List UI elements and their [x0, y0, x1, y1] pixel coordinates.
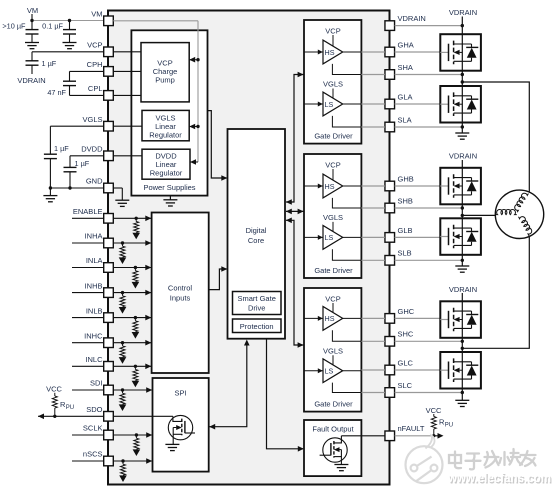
- pin SHC: [385, 330, 414, 346]
- svg-text:SPI: SPI: [175, 389, 187, 398]
- wire INLB stub: [72, 317, 104, 319]
- wire VM rail: [30, 19, 103, 22]
- svg-text:GHB: GHB: [398, 174, 414, 183]
- pin GND: [86, 177, 113, 193]
- wire SHA driver side: [361, 74, 385, 76]
- wire phase A: [462, 82, 529, 192]
- ground: [43, 196, 57, 202]
- wire GLC to bridge: [395, 369, 441, 371]
- svg-text:VGLS: VGLS: [323, 346, 343, 355]
- svg-text:VGLS: VGLS: [82, 115, 102, 124]
- pin GHB: [385, 174, 414, 190]
- wire nSCS stub: [72, 460, 104, 462]
- pin CPL: [88, 84, 113, 100]
- ground: [455, 133, 469, 139]
- pin VGLS: [82, 115, 113, 131]
- pin SHB: [385, 196, 413, 212]
- svg-text:0.1 µF: 0.1 µF: [42, 22, 63, 31]
- svg-text:Pump: Pump: [155, 75, 175, 84]
- wire INLA internal: [113, 265, 151, 271]
- wire INLC stub: [72, 365, 104, 367]
- svg-text:VCC: VCC: [46, 385, 62, 394]
- svg-text:1 µF: 1 µF: [75, 159, 90, 168]
- pin SLA: [385, 115, 412, 131]
- wire GHA to bridge: [395, 51, 441, 53]
- svg-text:VM: VM: [91, 10, 102, 19]
- block Control Inputs: [152, 213, 209, 374]
- pin SHA: [385, 63, 413, 79]
- pin GHC: [385, 307, 415, 323]
- resistor pulldown INLC: [132, 366, 140, 387]
- svg-text:VGLS: VGLS: [323, 213, 343, 222]
- svg-text:Digital: Digital: [246, 226, 267, 235]
- pin SDI: [90, 379, 113, 395]
- transistor low-side A: [440, 86, 481, 123]
- wire INLC internal: [113, 364, 151, 370]
- pin GLA: [385, 92, 413, 108]
- svg-text:VCP: VCP: [325, 161, 340, 170]
- svg-text:VCC: VCC: [426, 406, 442, 415]
- wire SLA to bridge: [395, 126, 462, 128]
- watermark text URL: [447, 471, 551, 485]
- wire nFAULT arrow: [432, 433, 443, 439]
- wire GND: [49, 186, 104, 195]
- svg-text:47 nF: 47 nF: [47, 88, 66, 97]
- pin INLA: [86, 256, 113, 272]
- block Protection: [233, 319, 282, 333]
- block Smart Gate Drive: [233, 292, 282, 315]
- svg-text:Core: Core: [248, 236, 264, 245]
- svg-text:>10 µF: >10 µF: [2, 22, 26, 31]
- node VCC label: [46, 385, 62, 394]
- wire GLB to bridge: [395, 236, 441, 238]
- svg-text:INLC: INLC: [85, 355, 103, 364]
- pin SDO: [86, 405, 113, 421]
- svg-text:Protection: Protection: [240, 322, 274, 331]
- pin INLC: [85, 355, 113, 371]
- pin nSCS: [83, 450, 113, 466]
- wire GLB driver side: [361, 236, 385, 238]
- wire bus to gate driver A: [286, 72, 304, 205]
- transistor low-side B: [440, 218, 481, 255]
- block Fault Output: [304, 420, 361, 476]
- svg-text:VGLS: VGLS: [323, 80, 343, 89]
- svg-text:SHB: SHB: [398, 196, 413, 205]
- wire SCLK stub: [72, 434, 104, 436]
- wire INHA stub: [72, 242, 104, 244]
- pin VM: [91, 10, 113, 26]
- wire SHB to bridge: [395, 207, 462, 209]
- watermark logo: [406, 436, 443, 484]
- svg-text:PU: PU: [445, 423, 453, 429]
- wire SHC node: [461, 338, 464, 352]
- wire digital core to fault output: [267, 339, 304, 452]
- svg-text:SLC: SLC: [398, 381, 413, 390]
- svg-text:HS: HS: [325, 182, 335, 191]
- wire INLA stub: [72, 267, 104, 269]
- svg-text:LS: LS: [325, 100, 334, 109]
- resistor pulldown INLB: [132, 318, 140, 339]
- block VCP Charge Pump: [141, 43, 189, 102]
- transistor fault output driver: [320, 436, 348, 465]
- motor M1: [495, 190, 543, 238]
- capacitor 1 uF VCP: [26, 59, 57, 74]
- resistor pulldown SCLK: [133, 435, 141, 456]
- resistor pulldown INHC: [119, 343, 127, 364]
- wire SHB node: [461, 204, 464, 218]
- capacitor 0.1 uF: [42, 21, 76, 43]
- svg-text:GLC: GLC: [398, 358, 414, 367]
- wire VM feedback: [113, 21, 199, 165]
- svg-text:Inputs: Inputs: [170, 294, 191, 303]
- wire SCLK internal: [113, 432, 152, 438]
- svg-text:INHB: INHB: [85, 281, 103, 290]
- wire INHC stub: [72, 342, 104, 344]
- wire DVDD to regulator: [113, 155, 142, 157]
- ground: [25, 43, 39, 49]
- svg-text:DVDD: DVDD: [81, 145, 103, 154]
- pin GLC: [385, 358, 414, 374]
- resistor pulldown SDI: [119, 390, 127, 411]
- pin GLB: [385, 226, 413, 242]
- svg-text:LS: LS: [325, 233, 334, 242]
- wire bus to gate driver B: [286, 209, 304, 215]
- wire SDO into SPI: [113, 415, 173, 417]
- wire SHC driver side: [361, 340, 385, 342]
- transistor SPI SDO driver: [168, 415, 195, 444]
- wire VCP to charge pump: [113, 51, 141, 53]
- wire GND internal ground: [113, 188, 129, 206]
- wire CPH: [70, 71, 104, 81]
- resistor RPU nFAULT: [431, 414, 453, 436]
- wire CPH to charge pump: [113, 70, 141, 72]
- resistor pulldown ENABLE: [132, 218, 140, 239]
- pin ENABLE: [73, 207, 113, 223]
- wire INHB internal: [113, 290, 151, 296]
- transistor high-side A: [440, 34, 481, 70]
- wire INHA internal: [113, 240, 151, 246]
- svg-text:ENABLE: ENABLE: [73, 207, 103, 216]
- wire CPL: [70, 86, 104, 96]
- svg-text:VCP: VCP: [87, 41, 102, 50]
- svg-text:HS: HS: [325, 314, 335, 323]
- pin nFAULT: [385, 424, 425, 440]
- svg-text:INLA: INLA: [86, 256, 103, 265]
- main IC block U1: [108, 11, 390, 485]
- wire VDRAIN rail C: [461, 293, 463, 301]
- wire VDRAIN rail B: [461, 160, 463, 168]
- wire GHA driver side: [361, 51, 385, 53]
- node VCC label nFAULT: [426, 406, 442, 415]
- pin INLB: [86, 306, 113, 322]
- svg-text:CPH: CPH: [87, 60, 103, 69]
- svg-text:GLB: GLB: [398, 226, 413, 235]
- wire SLB driver side: [361, 259, 385, 261]
- svg-text:VDRAIN: VDRAIN: [449, 285, 477, 294]
- capacitor 1 uF DVDD: [64, 159, 90, 188]
- ground: [455, 266, 469, 272]
- svg-text:Fault Output: Fault Output: [312, 424, 354, 433]
- wire power supplies to digital core: [208, 111, 228, 181]
- resistor pulldown nSCS: [119, 461, 127, 482]
- transistor high-side C: [440, 301, 481, 338]
- svg-text:SDO: SDO: [86, 405, 102, 414]
- svg-text:1 µF: 1 µF: [54, 144, 69, 153]
- wire SHC to bridge: [395, 340, 462, 342]
- wire VDRAIN rail A: [461, 17, 464, 35]
- block Digital Core: [228, 129, 286, 339]
- svg-text:CPL: CPL: [88, 84, 103, 93]
- svg-text:Regulator: Regulator: [149, 130, 182, 139]
- svg-text:Power Supplies: Power Supplies: [143, 183, 195, 192]
- svg-text:SLA: SLA: [398, 115, 412, 124]
- capacitor 47 nF: [47, 81, 76, 97]
- block SPI: [153, 378, 209, 472]
- svg-text:nFAULT: nFAULT: [398, 424, 425, 433]
- wire SLA driver side: [361, 126, 385, 128]
- svg-text:SCLK: SCLK: [83, 424, 103, 433]
- wire fault to nFAULT pin: [341, 435, 385, 437]
- pin SLB: [385, 249, 412, 265]
- pin VCP: [87, 41, 113, 57]
- svg-text:GHC: GHC: [398, 307, 415, 316]
- svg-text:SHA: SHA: [398, 63, 413, 72]
- svg-text:HS: HS: [325, 48, 335, 57]
- capacitor 1 uF VGLS: [44, 144, 69, 188]
- wire SLA node: [461, 123, 464, 134]
- wire VGLS to regulator: [113, 125, 142, 127]
- pin SCLK: [83, 424, 113, 440]
- capacitor >10 uF: [2, 21, 38, 43]
- svg-text:INLB: INLB: [86, 306, 103, 315]
- motor winding A: [513, 191, 529, 212]
- wire bus to gate driver C: [286, 218, 304, 348]
- wire SHA to bridge: [395, 74, 462, 76]
- block VGLS Linear Regulator: [142, 110, 189, 140]
- pin INHA: [85, 232, 114, 248]
- wire VGLS: [50, 126, 103, 154]
- svg-text:PU: PU: [66, 405, 74, 411]
- block Power Supplies: [131, 30, 207, 195]
- wire GHC to bridge: [395, 317, 441, 319]
- svg-text:1 µF: 1 µF: [42, 59, 57, 68]
- wire VCP: [32, 52, 104, 61]
- wire SLC node: [461, 389, 464, 401]
- node VDRAIN label: [17, 76, 45, 85]
- motor winding B: [495, 209, 517, 214]
- wire GHB to bridge: [395, 185, 441, 187]
- pin CPH: [87, 60, 114, 76]
- svg-text:Control: Control: [168, 284, 193, 293]
- wire phase B: [462, 214, 495, 216]
- wire digital core to SPI: [209, 340, 249, 430]
- wire ENABLE internal: [113, 216, 151, 222]
- wire SHB driver side: [361, 207, 385, 209]
- block Gate Driver B: [304, 154, 361, 278]
- wire INLB internal: [113, 315, 151, 321]
- node VDRAIN label bridge B: [449, 152, 477, 161]
- svg-text:Regulator: Regulator: [150, 169, 183, 178]
- pin DVDD: [81, 145, 113, 161]
- node VM label: [27, 6, 38, 21]
- wire SLB node: [461, 255, 464, 266]
- pin GHA: [385, 40, 414, 56]
- motor winding C: [519, 214, 534, 236]
- svg-text:www.elecfans.com: www.elecfans.com: [447, 471, 551, 485]
- pin SLC: [385, 381, 413, 397]
- svg-text:LS: LS: [325, 367, 334, 376]
- ground: [334, 465, 348, 471]
- wire GLC driver side: [361, 369, 385, 371]
- wire SHA node: [461, 71, 464, 86]
- wire INHB stub: [72, 292, 104, 294]
- wire SDI stub: [72, 389, 104, 391]
- wire SDO: [38, 414, 104, 420]
- node VDRAIN label bridge C: [449, 285, 477, 294]
- transistor high-side B: [440, 168, 481, 205]
- resistor RPU: [52, 393, 74, 417]
- wire nSCS internal: [113, 458, 152, 464]
- svg-text:SHC: SHC: [398, 330, 414, 339]
- svg-text:VDRAIN: VDRAIN: [449, 8, 477, 17]
- block Gate Driver A: [304, 20, 361, 144]
- resistor pulldown INHB: [119, 293, 127, 314]
- watermark text CN: [449, 449, 536, 469]
- resistor pulldown INLA: [132, 268, 140, 289]
- svg-text:Gate Driver: Gate Driver: [314, 399, 353, 408]
- block Gate Driver C: [304, 288, 361, 412]
- wire DVDD: [70, 156, 104, 168]
- svg-text:VDRAIN: VDRAIN: [17, 76, 45, 85]
- svg-text:VCP: VCP: [325, 27, 340, 36]
- svg-text:VCP: VCP: [325, 295, 340, 304]
- wire SLC driver side: [361, 392, 385, 394]
- wire GHC driver side: [361, 317, 385, 319]
- wire SLB to bridge: [395, 259, 462, 261]
- svg-text:VDRAIN: VDRAIN: [398, 14, 426, 23]
- block DVDD Linear Regulator: [142, 149, 190, 179]
- svg-text:Smart Gate: Smart Gate: [238, 294, 276, 303]
- wire INHC internal: [113, 340, 151, 346]
- ground: [455, 400, 469, 406]
- svg-text:nSCS: nSCS: [83, 450, 103, 459]
- wire ENABLE stub: [72, 217, 104, 219]
- ground: [165, 444, 179, 450]
- svg-text:GND: GND: [86, 177, 103, 186]
- svg-text:Gate Driver: Gate Driver: [314, 131, 353, 140]
- ground: [163, 196, 177, 206]
- pin VDRAIN: [385, 14, 426, 30]
- svg-text:VM: VM: [27, 6, 38, 15]
- wire SDI internal: [113, 387, 152, 393]
- pin INHC: [84, 331, 113, 347]
- svg-text:GLA: GLA: [398, 92, 413, 101]
- svg-text:SLB: SLB: [398, 249, 412, 258]
- wire nFAULT external: [395, 435, 434, 437]
- wire CPL to charge pump: [113, 94, 141, 96]
- wire VDRAIN to bridge: [395, 25, 462, 27]
- wire control inputs to digital core: [209, 266, 228, 289]
- svg-text:GHA: GHA: [398, 40, 414, 49]
- wire GLA driver side: [361, 103, 385, 105]
- wire GLA to bridge: [395, 103, 441, 105]
- node VDRAIN label bridge A: [449, 8, 477, 17]
- wire GHB driver side: [361, 185, 385, 187]
- pin INHB: [85, 281, 114, 297]
- svg-text:INHA: INHA: [85, 232, 103, 241]
- svg-text:Gate Driver: Gate Driver: [314, 266, 353, 275]
- wire SLC to bridge: [395, 392, 462, 394]
- svg-text:SDI: SDI: [90, 379, 103, 388]
- svg-text:INHC: INHC: [84, 331, 103, 340]
- svg-text:VDRAIN: VDRAIN: [449, 152, 477, 161]
- wire phase C: [462, 237, 529, 348]
- svg-text:Drive: Drive: [248, 304, 266, 313]
- resistor pulldown INHA: [119, 243, 127, 264]
- ground: [63, 43, 77, 49]
- transistor low-side C: [440, 352, 481, 389]
